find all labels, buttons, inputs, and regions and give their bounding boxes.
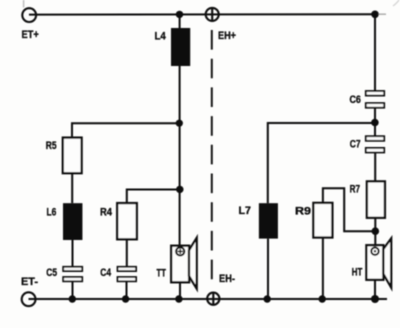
wire TT bottom to rail (179, 282, 181, 299)
wire R7 to HT (374, 218, 376, 245)
inductor L4 (171, 28, 190, 66)
node top right (371, 11, 379, 19)
wire faded stub right of top-right node (378, 13, 386, 15)
svg-text:EH+: EH+ (218, 30, 236, 42)
terminal EH- (207, 292, 219, 305)
node C6-C7 (371, 119, 379, 127)
terminal EH+ (206, 8, 219, 22)
node R7-HT (372, 227, 380, 235)
capacitor C4 (118, 267, 137, 282)
speaker TT (171, 238, 197, 289)
terminal ET+ (22, 8, 36, 22)
wire L7 to rail (267, 239, 269, 299)
wire C5 to rail (72, 281, 74, 299)
svg-text:L6: L6 (47, 206, 57, 218)
svg-text:R9: R9 (295, 205, 311, 217)
resistor R4 (117, 203, 137, 239)
dashed separator line (211, 30, 213, 279)
wire HT bottom to rail (374, 280, 376, 299)
capacitor C7 (366, 136, 384, 152)
svg-text:HT: HT (352, 267, 363, 279)
node top main (176, 11, 183, 18)
svg-text:TT: TT (157, 268, 167, 280)
svg-text:L4: L4 (155, 30, 166, 42)
resistor R5 (63, 138, 82, 174)
wire right vertical (top rail to C6) (374, 14, 376, 91)
svg-text:R5: R5 (46, 140, 57, 152)
svg-text:ET-: ET- (21, 276, 38, 288)
node rail C4 (122, 295, 129, 302)
svg-text:EH-: EH- (219, 273, 235, 285)
svg-text:ET+: ET+ (22, 29, 39, 41)
wire bottom rail from ET- to right end (29, 298, 388, 300)
wire L7 branch horizontal (corner to C6-C7 node) (268, 123, 375, 203)
svg-text:R7: R7 (350, 184, 360, 196)
inductor L7 (259, 203, 278, 238)
node R5 branch (176, 120, 183, 127)
resistor R7 (367, 181, 385, 217)
wire C4 to rail (126, 281, 128, 299)
svg-text:C5: C5 (46, 267, 57, 279)
capacitor C6 (366, 91, 384, 108)
wire R9 top L-shaped to node below R7 (323, 188, 375, 231)
wire faint scan mark above ET+ (23, 0, 25, 8)
wire R4 to C4 (126, 239, 128, 267)
wire C7 to R7 (374, 153, 376, 182)
speaker HT (366, 239, 391, 288)
wire C6 to C7 (374, 108, 376, 137)
node rail R9 (319, 295, 326, 302)
wire faint scan mark top-right corner (393, 0, 399, 6)
node rail C5 (69, 295, 76, 302)
wire R5 to L6 (71, 173, 73, 203)
svg-text:C6: C6 (350, 94, 361, 106)
node rail HT (371, 295, 379, 303)
wire R9 to rail (322, 238, 324, 300)
wire main vertical (top rail to TT) (179, 15, 181, 247)
node R4 branch (176, 186, 183, 193)
inductor L6 (63, 203, 82, 240)
wire R5 branch top (corner to main line) (72, 123, 180, 137)
svg-text:L7: L7 (239, 205, 251, 217)
wire R4 branch top (corner to main line) (127, 190, 180, 204)
capacitor C5 (63, 267, 82, 282)
resistor R9 (313, 203, 332, 238)
wire top rail from ET+ to right end (29, 13, 375, 15)
node rail TT (175, 295, 182, 302)
node rail L7 (264, 295, 271, 302)
svg-text:C4: C4 (100, 267, 111, 279)
wire L6 to C5 (72, 240, 74, 267)
svg-text:R4: R4 (100, 206, 112, 218)
terminal ET- (22, 292, 36, 306)
svg-text:C7: C7 (350, 139, 361, 151)
